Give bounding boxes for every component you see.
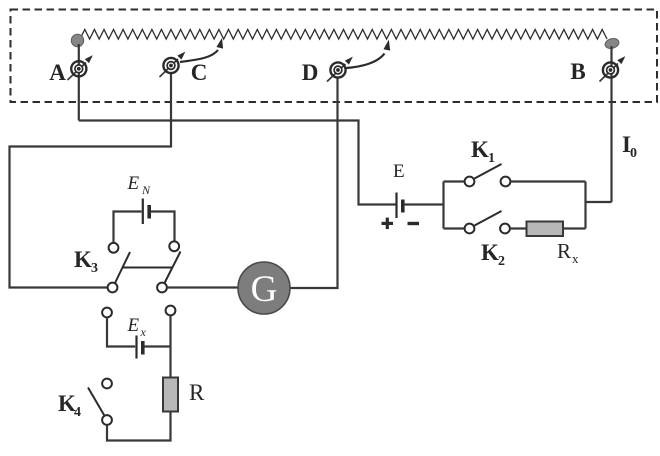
wire: battery E to K1/K2 junction <box>404 182 444 229</box>
svg-text:K: K <box>74 247 92 272</box>
end post left (gray dot) <box>71 34 83 46</box>
wire: C down, left, down to switch K3 left pole <box>10 72 172 288</box>
wire: D down to galvanometer right side <box>290 77 338 288</box>
wire: EN right lead <box>151 212 175 242</box>
wire: K1/K2 right junction to B branch <box>586 182 612 229</box>
svg-text:R: R <box>557 239 571 263</box>
switch K2 <box>444 227 465 229</box>
wire: left post down through terminal A <box>78 44 80 121</box>
battery Ex plates <box>135 336 137 359</box>
label + <box>382 222 394 225</box>
svg-text:D: D <box>302 60 319 85</box>
terminal D (binding post with arrow) <box>327 64 346 82</box>
svg-text:2: 2 <box>498 254 505 269</box>
svg-text:E: E <box>127 315 140 336</box>
wire: EN left lead <box>114 212 142 243</box>
svg-text:E: E <box>393 161 405 182</box>
resistor R <box>163 378 178 412</box>
wire: Ex left lead from lower throw <box>107 318 135 347</box>
slide-wire enclosure (dashed box) <box>11 10 658 103</box>
wire: right post down through terminal B <box>610 46 612 202</box>
svg-text:x: x <box>572 251 579 266</box>
battery E plates <box>395 193 397 219</box>
svg-text:3: 3 <box>91 261 98 276</box>
slide wire AB (zigzag resistance wire) <box>80 30 607 40</box>
svg-text:G: G <box>251 269 278 310</box>
terminal B (binding post with arrow) <box>600 64 619 82</box>
svg-text:4: 4 <box>74 405 81 420</box>
label - <box>408 222 420 225</box>
K3 lower throw contacts <box>102 308 112 318</box>
terminal C (binding post with arrow) <box>160 59 179 77</box>
switch K1 <box>444 180 465 182</box>
wire: Ex right lead / down to R <box>145 316 171 378</box>
svg-text:N: N <box>141 183 151 197</box>
switch K4 <box>102 379 112 389</box>
battery EN plates <box>142 199 144 225</box>
wire: K4 down and across to R bottom <box>107 412 171 441</box>
wire: A right then down to battery E <box>79 121 396 205</box>
terminal A (binding post with arrow) <box>68 63 87 81</box>
svg-text:C: C <box>191 60 208 85</box>
end post right (gray dot) <box>604 37 620 50</box>
svg-text:1: 1 <box>488 151 495 166</box>
wire: K3 right pole to galvanometer <box>167 286 239 288</box>
slider arrow D to wire <box>347 54 385 69</box>
resistor Rx <box>527 222 564 237</box>
svg-text:R: R <box>189 380 205 405</box>
slider arrow C to wire <box>180 50 218 62</box>
galvanometer G <box>238 262 290 314</box>
svg-text:K: K <box>471 137 489 162</box>
svg-text:K: K <box>481 240 499 265</box>
svg-text:E: E <box>127 173 140 194</box>
svg-text:x: x <box>140 325 147 339</box>
svg-text:A: A <box>49 60 66 85</box>
svg-text:B: B <box>570 59 585 84</box>
switch K3 (double-pole changeover) <box>109 243 119 253</box>
svg-text:0: 0 <box>630 146 637 161</box>
